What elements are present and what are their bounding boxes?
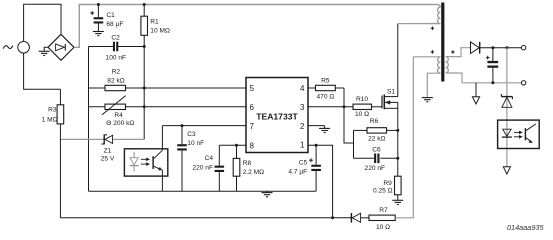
svg-text:R3: R3 bbox=[48, 107, 57, 114]
svg-text:C6: C6 bbox=[372, 146, 381, 153]
node (R1/HV) bbox=[143, 3, 146, 6]
secondary winding (grey) bbox=[446, 48, 471, 83]
svg-text:1: 1 bbox=[300, 141, 305, 150]
svg-text:C5: C5 bbox=[299, 160, 308, 167]
svg-text:4: 4 bbox=[300, 84, 305, 93]
aux winding (grey) bbox=[413, 57, 440, 98]
polarity mark (aux) bbox=[431, 50, 435, 54]
svg-text:R1: R1 bbox=[150, 19, 159, 26]
svg-text:68 µF: 68 µF bbox=[106, 21, 123, 28]
MOSFET S1 bbox=[382, 24, 398, 177]
ground (C1) bbox=[93, 32, 104, 36]
resistor R1 bbox=[141, 5, 170, 36]
svg-text:5: 5 bbox=[250, 84, 255, 93]
output capacitor bbox=[486, 48, 498, 83]
terminal +out bbox=[521, 46, 525, 50]
svg-text:220 nF: 220 nF bbox=[365, 165, 386, 172]
zener Z1 bbox=[60, 135, 144, 163]
primary winding bbox=[438, 7, 441, 23]
svg-text:R7: R7 bbox=[379, 207, 388, 214]
wire R6/C6 left column bbox=[353, 130, 355, 158]
VCC rail bbox=[60, 217, 351, 219]
wire R5 drop bbox=[344, 88, 354, 143]
feedback chain (grey) bbox=[506, 48, 508, 167]
svg-text:Θ 200 kΩ: Θ 200 kΩ bbox=[106, 120, 134, 127]
svg-text:6: 6 bbox=[250, 103, 255, 112]
diode D1 bbox=[351, 213, 369, 223]
ground (rail) bbox=[262, 191, 273, 197]
bridge rectifier bbox=[48, 34, 74, 60]
capacitor C5 bbox=[288, 145, 321, 191]
svg-text:Z1: Z1 bbox=[104, 148, 112, 155]
capacitor C1 bbox=[90, 5, 123, 32]
wire pin3 / gate bbox=[308, 106, 353, 108]
resistor R7 bbox=[369, 207, 395, 231]
svg-text:25 V: 25 V bbox=[101, 156, 115, 163]
node (C1/HV) bbox=[97, 3, 100, 6]
svg-text:3: 3 bbox=[300, 103, 305, 112]
ground (R9) bbox=[392, 200, 403, 204]
diode D2 (output) bbox=[471, 42, 522, 54]
svg-text:82 kΩ: 82 kΩ bbox=[107, 78, 124, 85]
wire pin8 bbox=[219, 144, 246, 146]
wire pin7 bbox=[162, 125, 246, 127]
resistor R6 bbox=[354, 118, 398, 142]
resistor R10 bbox=[353, 96, 382, 118]
svg-text:R2: R2 bbox=[112, 69, 121, 76]
svg-text:C3: C3 bbox=[187, 131, 196, 138]
capacitor C3 bbox=[177, 126, 204, 192]
svg-text:R4: R4 bbox=[114, 112, 123, 119]
wire: AC top loop bbox=[24, 4, 61, 41]
svg-text:R9: R9 bbox=[383, 180, 392, 187]
svg-text:100 nF: 100 nF bbox=[106, 55, 127, 62]
svg-text:220 nF: 220 nF bbox=[192, 164, 213, 171]
transformer core bbox=[441, 3, 444, 82]
svg-text:R10: R10 bbox=[356, 96, 368, 103]
svg-text:470 Ω: 470 Ω bbox=[317, 94, 335, 101]
wire secondary bottom (grey) bbox=[462, 82, 521, 84]
resistor R5 bbox=[308, 77, 344, 100]
wire: left rail bbox=[88, 47, 90, 192]
svg-text:C2: C2 bbox=[111, 35, 120, 42]
svg-text:22 kΩ: 22 kΩ bbox=[368, 135, 385, 142]
svg-text:TEA1733T: TEA1733T bbox=[256, 112, 298, 122]
capacitor C6 bbox=[354, 146, 398, 172]
ground (bridge) bbox=[39, 47, 50, 55]
ground (pin2) bbox=[308, 126, 330, 133]
resistor R8 bbox=[233, 145, 264, 191]
svg-text:10 Ω: 10 Ω bbox=[355, 111, 369, 118]
polarity mark (secondary) bbox=[451, 50, 455, 54]
capacitor C4 bbox=[192, 145, 224, 191]
svg-text:R6: R6 bbox=[370, 118, 379, 125]
svg-text:10 MΩ: 10 MΩ bbox=[150, 28, 170, 35]
wire R7 to aux winding (grey) bbox=[395, 57, 413, 218]
capacitor C2 bbox=[89, 35, 145, 62]
resistor R2 + pin5 wire bbox=[89, 69, 247, 91]
AC source bbox=[3, 42, 29, 54]
zener Z2 bbox=[501, 94, 512, 107]
wire: HV rail (grey) bbox=[74, 5, 440, 48]
primary bottom lead (grey) bbox=[398, 23, 441, 25]
svg-text:2: 2 bbox=[300, 122, 305, 131]
ground (aux) bbox=[422, 98, 433, 102]
wire pin1 bbox=[308, 145, 333, 218]
ground rail bbox=[89, 190, 317, 192]
svg-text:C1: C1 bbox=[106, 12, 115, 19]
svg-text:7: 7 bbox=[250, 122, 255, 131]
resistor R9 bbox=[373, 176, 401, 200]
optocoupler (LED side) bbox=[498, 120, 540, 148]
svg-text:1 MΩ: 1 MΩ bbox=[42, 117, 58, 124]
IC U1 TEA1733T bbox=[246, 78, 308, 153]
svg-text:0.25 Ω: 0.25 Ω bbox=[373, 187, 393, 194]
wire: AC bottom bbox=[24, 53, 61, 89]
ground arrow (chain) bbox=[503, 167, 510, 174]
svg-text:R5: R5 bbox=[321, 77, 330, 84]
svg-text:10 Ω: 10 Ω bbox=[376, 224, 390, 231]
polarity mark (primary) bbox=[431, 26, 435, 30]
optocoupler (transistor side) bbox=[124, 126, 167, 192]
wire: R1 column bbox=[143, 35, 145, 139]
svg-text:R8: R8 bbox=[243, 160, 252, 167]
svg-text:8: 8 bbox=[250, 141, 255, 150]
svg-text:2.2 MΩ: 2.2 MΩ bbox=[243, 169, 264, 176]
svg-text:014aaa935: 014aaa935 bbox=[507, 223, 544, 232]
svg-text:10 nF: 10 nF bbox=[187, 140, 204, 147]
svg-text:C4: C4 bbox=[205, 155, 214, 162]
ground arrow (secondary) bbox=[472, 83, 479, 104]
svg-text:4.7 µF: 4.7 µF bbox=[288, 169, 307, 176]
resistor R3 bbox=[42, 89, 64, 218]
thermistor R4 + pin6 wire bbox=[89, 96, 247, 127]
terminal -out bbox=[521, 81, 525, 85]
svg-text:S1: S1 bbox=[387, 88, 395, 95]
